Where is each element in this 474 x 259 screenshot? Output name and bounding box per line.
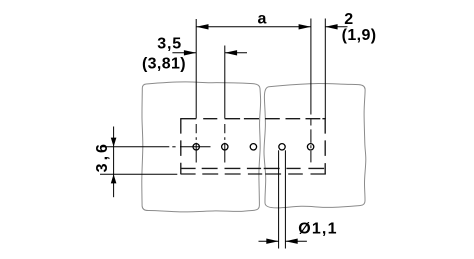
- PCB section left (torn-out board fragment): [142, 82, 261, 212]
- 3,6 bottom extension line: [100, 173, 177, 175]
- dimension 3,5 right arrow with tail: [225, 52, 247, 54]
- connector outline inner bottom edge (dashed): [181, 167, 324, 169]
- hole 3: [250, 144, 256, 150]
- svg-text:Ø1,1: Ø1,1: [298, 221, 338, 238]
- dimension line a: [196, 26, 311, 28]
- dim Ø1,1 right arrow with tail: [285, 240, 307, 242]
- dim a left arrowhead: [196, 24, 208, 29]
- dimension Ø1,1 leader line left (hole 4 left tangent): [278, 150, 280, 248]
- dim 3,6 top arrowhead (pointing down): [111, 138, 117, 147]
- dim 3,6 bottom arrowhead (pointing up): [111, 174, 117, 183]
- dimension 3,5 left arrow with tail: [172, 52, 196, 54]
- dim a right arrowhead: [299, 24, 311, 29]
- connector outline left edge (dashed): [180, 118, 182, 174]
- svg-text:a: a: [258, 10, 267, 27]
- dim Ø1,1 left arrow with tail: [259, 240, 279, 242]
- svg-text:(1,9): (1,9): [342, 27, 377, 44]
- hole 2: [222, 144, 228, 150]
- hole 4: [279, 144, 285, 150]
- dimension Ø1,1 leader line right (hole 4 right tangent): [284, 150, 286, 248]
- hole 5: [307, 144, 313, 150]
- dimension 2 right arrow with tail: [325, 26, 347, 28]
- extension line C (hole 5 center, for dims a and 2): [310, 19, 312, 163]
- PCB section right (torn-out board fragment): [264, 84, 366, 208]
- connector outline right edge (dashed): [324, 118, 326, 174]
- dimension 3,6 vertical line: [113, 127, 115, 198]
- connector outline front bottom edge (dashed): [181, 173, 326, 175]
- connector outline top edge (dashed): [181, 118, 326, 120]
- extension line A (hole 1 center, for dims a and 3,5): [195, 19, 197, 163]
- extension line B (hole 2 center, for dim 3,5): [224, 46, 226, 163]
- hole 1: [193, 144, 199, 150]
- extension line D (outline right edge, for dim 2): [324, 19, 326, 119]
- svg-text:3,5: 3,5: [157, 35, 182, 52]
- svg-text:3,6: 3,6: [94, 141, 111, 172]
- horizontal centerline through hole row (dash-dot), also 3,6 top extension: [100, 146, 169, 148]
- svg-text:(3,81): (3,81): [142, 55, 186, 72]
- svg-text:2: 2: [344, 11, 353, 28]
